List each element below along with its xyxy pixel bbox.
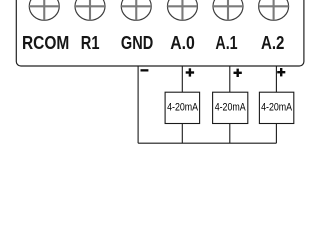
wire A.2 to device 3 [275,66,277,92]
label A.2 [261,32,284,53]
plus polarity mark A.0 [186,68,194,76]
svg-text:A.0: A.0 [170,32,195,53]
4-20mA device 1 [165,92,200,123]
4-20mA device 3 [259,92,293,123]
label GND [121,32,153,53]
terminal A.0 screw [167,0,197,20]
label A.1 [215,32,237,53]
svg-text:4-20mA: 4-20mA [215,102,246,114]
terminal GND screw [121,0,151,20]
terminal R1 screw [75,0,105,20]
plus polarity mark A.1 [234,69,242,77]
4-20mA device 2 [213,92,248,123]
svg-text:4-20mA: 4-20mA [261,102,292,114]
svg-text:4-20mA: 4-20mA [167,102,198,114]
wire GND down to bus [137,66,139,143]
svg-text:A.2: A.2 [261,32,284,53]
minus polarity mark [141,69,149,71]
label A.0 [170,32,195,53]
terminal A.1 screw [213,0,243,20]
terminal RCOM screw [29,0,59,20]
wire A.1 to device 2 [229,66,231,92]
svg-text:GND: GND [121,32,153,53]
wire device 2 to bus [229,124,231,144]
svg-text:R1: R1 [81,32,100,53]
wire device 1 to bus [181,124,183,144]
label R1 [81,32,100,53]
label RCOM [22,32,69,53]
svg-text:A.1: A.1 [215,32,237,53]
wire A.0 to device 1 [181,66,183,92]
svg-text:RCOM: RCOM [22,32,69,53]
terminal A.2 screw [259,0,289,20]
wire device 3 to bus [275,124,277,144]
common return bus [138,142,276,144]
plus polarity mark A.2 [277,68,285,76]
terminal block outline [16,0,304,66]
